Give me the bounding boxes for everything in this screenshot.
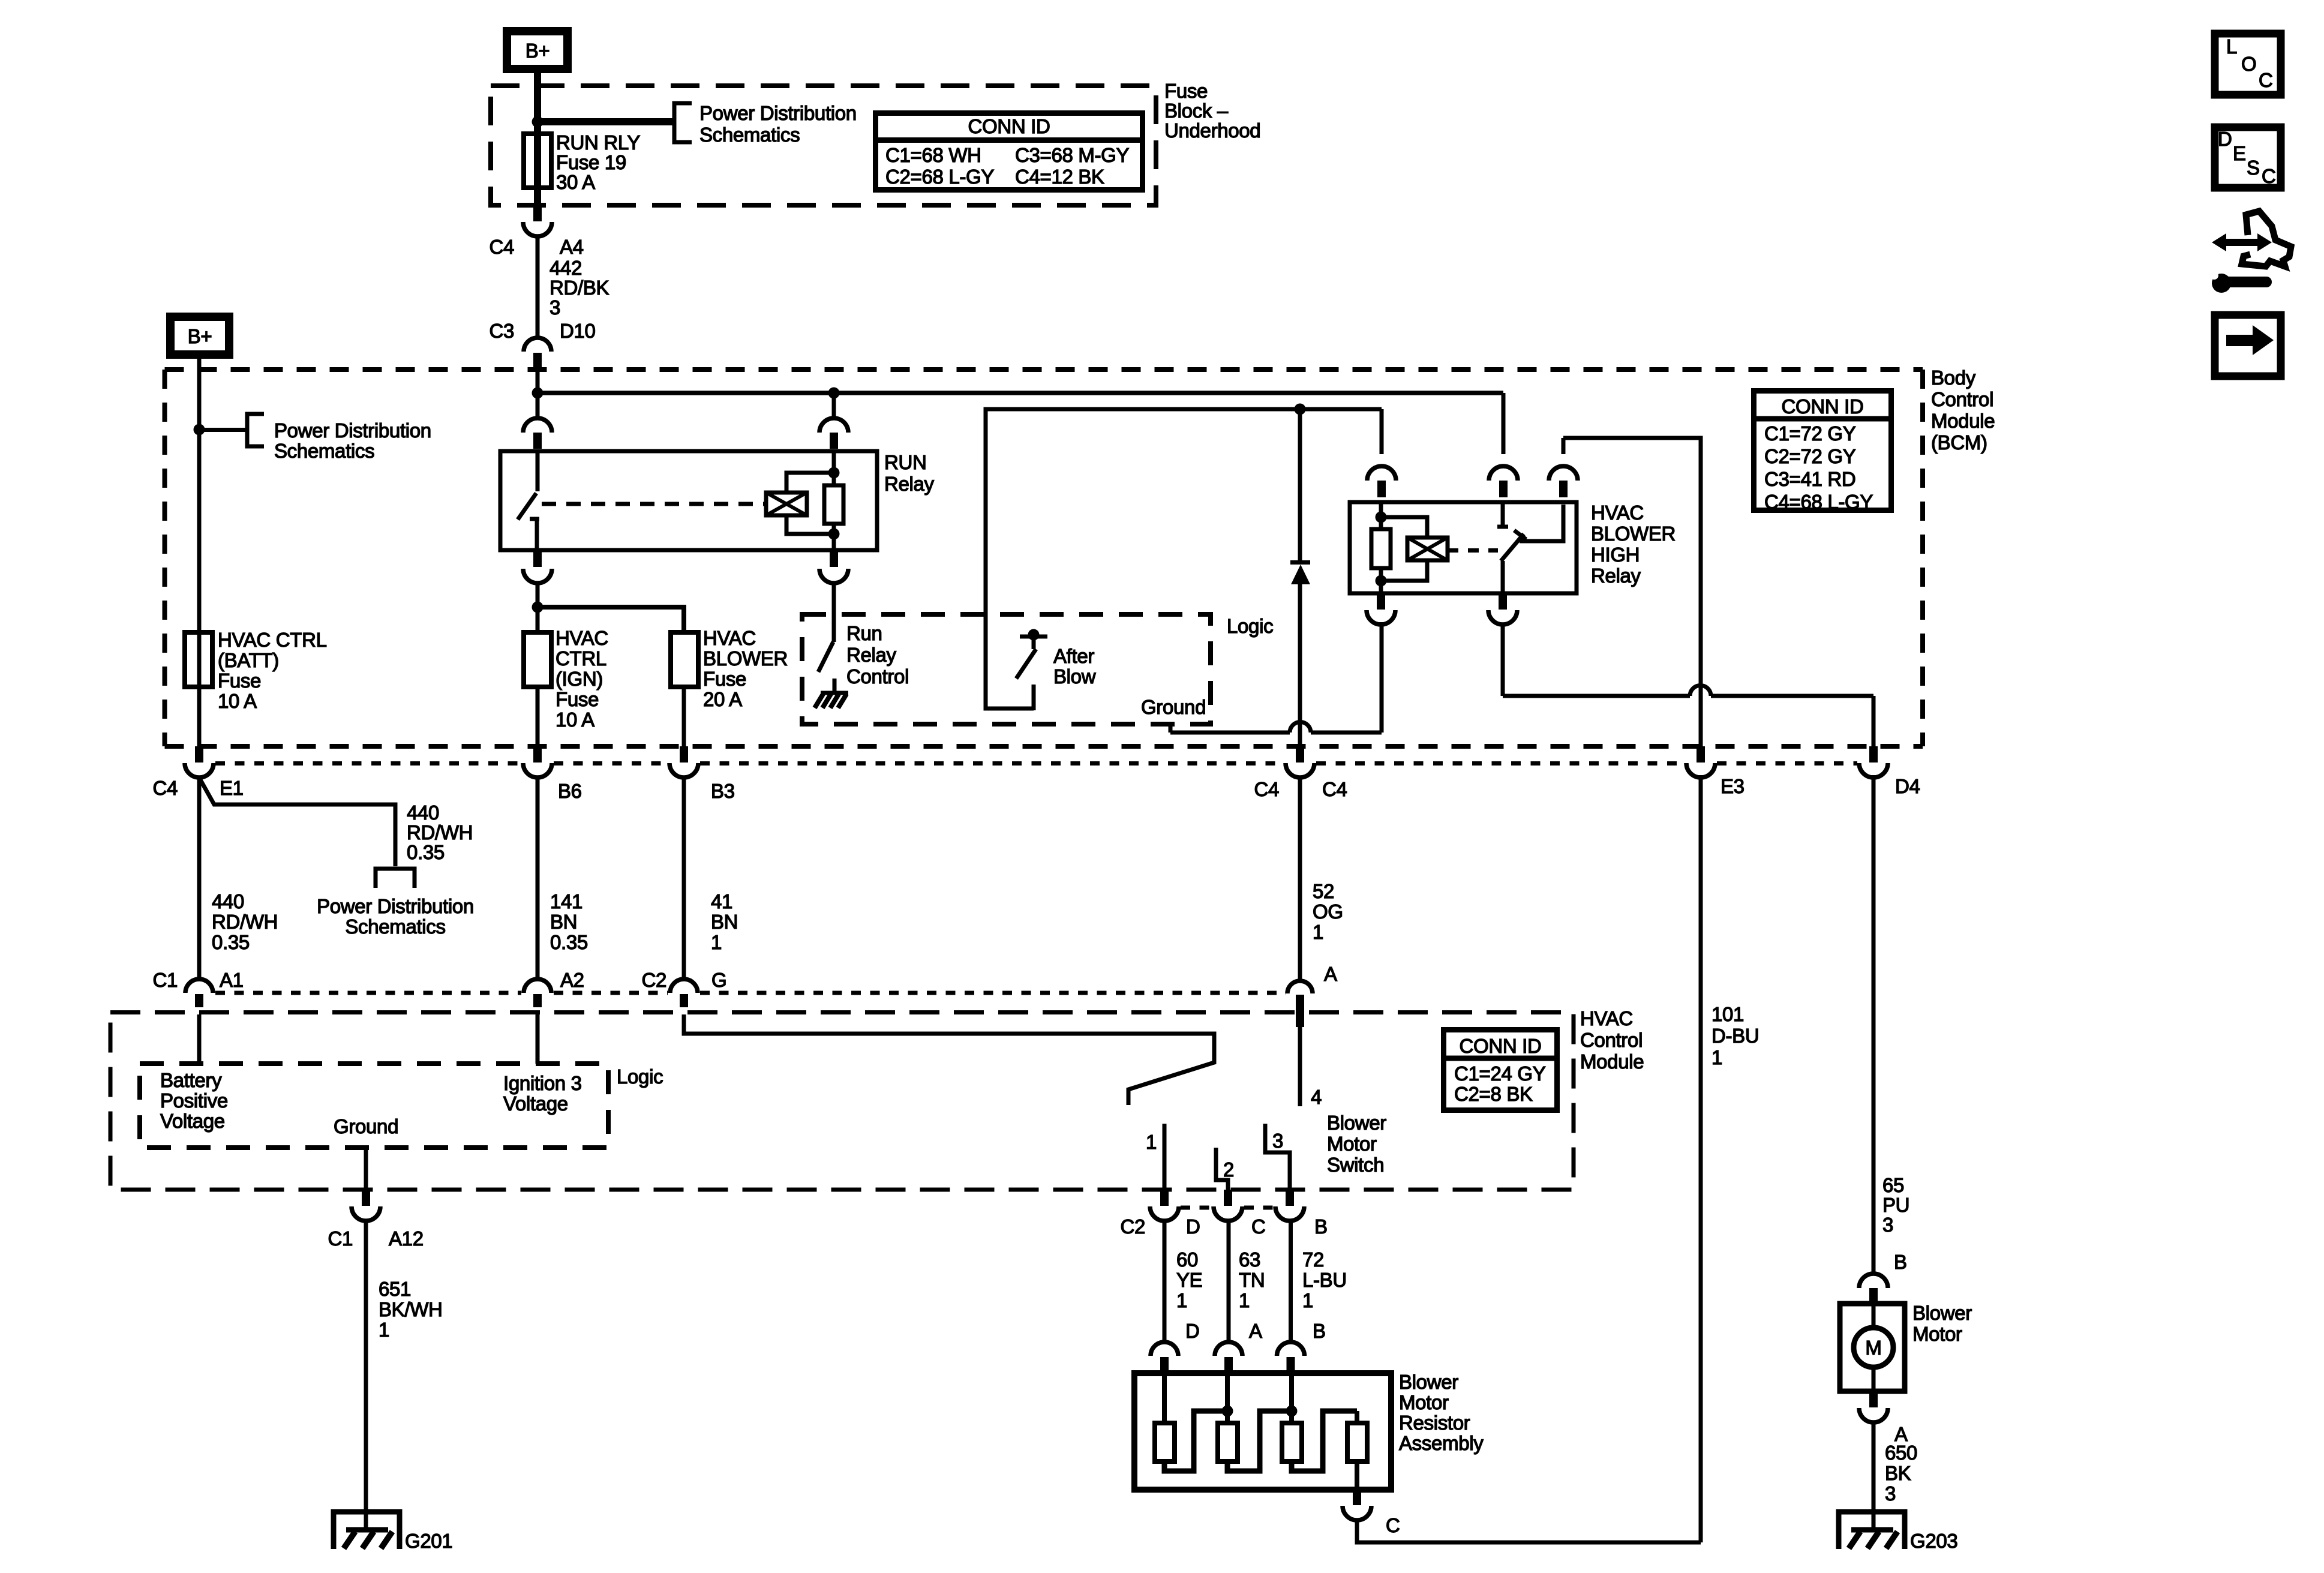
wire - logic ground to coil low side (with hop over diode wire) — [1169, 724, 1173, 733]
svg-text:BK/WH: BK/WH — [379, 1298, 443, 1320]
svg-text:10 A: 10 A — [218, 690, 257, 712]
connector A - blower motor output — [1869, 1391, 1878, 1407]
icon - LOC box — [2215, 34, 2281, 95]
switch - blower high relay contact — [1501, 502, 1505, 528]
svg-text:G: G — [711, 969, 726, 991]
svg-text:RUN RLY: RUN RLY — [556, 131, 640, 154]
svg-text:Module: Module — [1931, 410, 1995, 432]
svg-text:C2: C2 — [1120, 1215, 1145, 1238]
component box - Blower Motor — [1840, 1304, 1905, 1391]
module box - HVAC Control Module dashed outline — [110, 1013, 1574, 1190]
wire - switch signal to blower motor switch pin 4 — [1298, 1027, 1302, 1106]
svg-text:BN: BN — [550, 911, 577, 933]
wire 72 L-BU 1 - B to resistor B — [1289, 1221, 1293, 1342]
icon - DESC box — [2215, 127, 2281, 188]
svg-text:C2=68 L-GY: C2=68 L-GY — [885, 166, 994, 188]
svg-text:4: 4 — [1311, 1086, 1322, 1108]
svg-text:52: 52 — [1313, 880, 1334, 902]
svg-text:HVAC: HVAC — [703, 627, 756, 649]
svg-text:C3=68 M-GY: C3=68 M-GY — [1015, 144, 1130, 166]
component box - Blower Motor Resistor Assembly — [1134, 1373, 1391, 1490]
svg-text:Body: Body — [1931, 367, 1976, 389]
connector - run relay switch pin 30 (top) — [536, 393, 540, 419]
fuse HVAC BLOWER Fuse 20 A — [671, 632, 698, 687]
resistor R-med1 (leg A) — [1225, 1373, 1230, 1423]
connector C1/A12 - HVAC ground output — [362, 1190, 370, 1206]
table CONN ID (HVAC control module) — [1444, 1030, 1557, 1110]
dashed actuator link - run relay — [542, 502, 766, 506]
svg-text:1: 1 — [1313, 921, 1323, 943]
svg-text:141: 141 — [550, 890, 582, 912]
series link 1 - resistor assembly — [1164, 1411, 1227, 1471]
svg-text:0.35: 0.35 — [550, 931, 588, 953]
svg-text:G203: G203 — [1910, 1530, 1957, 1552]
svg-text:41: 41 — [711, 890, 732, 912]
fuse block - underhood dashed outline — [491, 86, 1156, 205]
svg-text:101: 101 — [1712, 1003, 1744, 1025]
connector C4/E1 - BCM battery voltage — [195, 746, 203, 763]
svg-text:A12: A12 — [389, 1227, 424, 1250]
wire 650 BK 3 - motor to G203 — [1872, 1422, 1876, 1531]
wire - resistor common to E3 control wire — [1357, 1520, 1701, 1542]
svg-text:C3: C3 — [489, 320, 514, 342]
svg-text:B: B — [1313, 1320, 1326, 1342]
wire - blower switch wiper feed from G — [684, 1014, 1214, 1105]
wire 440 RD/WH 0.35 - E1 branch to power distribution — [200, 779, 395, 866]
connector - run relay coil pin 85 (bottom) — [830, 550, 838, 567]
svg-text:60: 60 — [1176, 1248, 1198, 1271]
svg-text:Fuse 19: Fuse 19 — [556, 151, 626, 173]
relay coil winding loop - blower high relay — [1381, 517, 1427, 538]
logic box - BCM internal logic dashed outline — [802, 614, 1211, 724]
svg-text:Relay: Relay — [1591, 565, 1641, 587]
svg-text:CONN ID: CONN ID — [1781, 395, 1863, 418]
connector C2/D - blower switch low output — [1160, 1190, 1169, 1206]
connector E3 - blower relay control output — [1697, 746, 1705, 763]
svg-text:C4=68 L-GY: C4=68 L-GY — [1764, 491, 1873, 513]
svg-text:Switch: Switch — [1327, 1154, 1384, 1176]
svg-text:Power Distribution: Power Distribution — [699, 102, 857, 124]
power symbol B+ (BCM battery feed) — [170, 317, 229, 355]
wire - BCM main ignition bus — [536, 370, 540, 393]
connector C4/C4 - BCM blower switch signal — [1296, 746, 1304, 763]
svg-text:Power Distribution: Power Distribution — [317, 895, 474, 917]
svg-text:Motor: Motor — [1912, 1323, 1962, 1345]
svg-text:B: B — [1314, 1215, 1328, 1238]
wire - A1 into logic (battery positive voltage) — [197, 1014, 202, 1064]
svg-text:Control: Control — [846, 665, 909, 688]
wire - A2 into logic (ignition 3 voltage) — [536, 1014, 540, 1064]
svg-text:Blower: Blower — [1327, 1112, 1386, 1134]
svg-text:E3: E3 — [1721, 775, 1744, 797]
wire - logic ground output — [364, 1148, 368, 1190]
wire - bus to blower high relay switch — [1502, 393, 1506, 454]
svg-text:C: C — [2259, 69, 2273, 91]
fuse HVAC CTRL (IGN) Fuse 10 A — [524, 632, 551, 687]
series link 3 - resistor assembly — [1292, 1411, 1357, 1471]
relay RUN Relay - box — [500, 451, 877, 550]
series link 2 - resistor assembly — [1227, 1411, 1292, 1471]
svg-text:BN: BN — [711, 911, 738, 933]
svg-text:Blower: Blower — [1399, 1371, 1458, 1393]
svg-text:BLOWER: BLOWER — [703, 647, 788, 670]
harness line - BCM connector row (dotted) — [215, 761, 521, 766]
module box - Body Control Module (BCM) dashed outline — [165, 367, 1923, 372]
switch contact 2 - blower motor switch — [1216, 1148, 1228, 1190]
svg-text:C2=72 GY: C2=72 GY — [1764, 445, 1856, 467]
svg-text:Underhood: Underhood — [1164, 119, 1260, 142]
svg-text:Control: Control — [1931, 388, 1993, 410]
svg-text:CONN ID: CONN ID — [968, 115, 1050, 137]
svg-text:20 A: 20 A — [703, 688, 742, 710]
svg-text:C3=41 RD: C3=41 RD — [1764, 468, 1855, 490]
svg-text:Control: Control — [1580, 1029, 1643, 1051]
svg-text:L-BU: L-BU — [1302, 1269, 1347, 1291]
wire - after blow to HVAC blower high relay coil feed — [986, 409, 1382, 709]
svg-text:A4: A4 — [560, 236, 584, 258]
svg-text:30 A: 30 A — [556, 171, 595, 193]
svg-text:D: D — [2218, 128, 2232, 150]
resistor R-med2 (leg B) — [1289, 1373, 1294, 1423]
wire - relay output to D4 (hops over E3 wire) — [1501, 625, 1505, 696]
svg-text:B+: B+ — [526, 40, 550, 62]
svg-text:65: 65 — [1882, 1174, 1904, 1196]
logic box - HVAC module logic dashed outline — [140, 1064, 608, 1148]
resistor R-common (output) — [1355, 1411, 1359, 1423]
switch - run relay contact — [536, 451, 540, 491]
svg-text:E: E — [2233, 142, 2246, 164]
svg-text:1: 1 — [1239, 1289, 1250, 1311]
svg-text:Motor: Motor — [1327, 1133, 1377, 1155]
harness line - HVAC control module connector row (dotted) — [215, 991, 521, 995]
svg-text:A: A — [1249, 1320, 1262, 1342]
svg-text:M: M — [1865, 1337, 1881, 1359]
icon - vehicle service glyph with double arrow and wrench — [2242, 211, 2291, 266]
svg-text:B: B — [1894, 1251, 1907, 1273]
svg-text:C1: C1 — [152, 969, 178, 991]
svg-text:72: 72 — [1302, 1248, 1324, 1271]
svg-text:Ground: Ground — [334, 1115, 398, 1137]
svg-text:Schematics: Schematics — [699, 124, 800, 146]
connector B3 - blower fuse output — [680, 746, 688, 763]
wire 65 PU 3 - D4 to blower motor — [1872, 775, 1876, 1274]
svg-text:Ignition 3: Ignition 3 — [503, 1072, 582, 1094]
wire - B+ into BCM down to HVAC CTRL (BATT) fuse — [197, 355, 202, 746]
svg-text:Schematics: Schematics — [274, 440, 374, 462]
wire 440 RD/WH 0.35 - C1/A1 — [197, 777, 202, 980]
ground G203 — [1839, 1512, 1905, 1549]
svg-text:G201: G201 — [405, 1530, 452, 1552]
svg-text:440: 440 — [212, 890, 244, 912]
svg-text:C2=8 BK: C2=8 BK — [1454, 1083, 1533, 1105]
table CONN ID (fuse block underhood) — [876, 113, 1143, 190]
svg-text:CTRL: CTRL — [556, 647, 606, 670]
svg-text:S: S — [2247, 157, 2260, 179]
svg-text:C1=24 GY: C1=24 GY — [1454, 1062, 1546, 1085]
svg-text:63: 63 — [1239, 1248, 1260, 1271]
wire - IGN fuse to B6 — [536, 687, 540, 746]
svg-text:HVAC: HVAC — [556, 627, 608, 649]
svg-text:Relay: Relay — [884, 473, 935, 495]
svg-text:Module: Module — [1580, 1050, 1644, 1073]
svg-text:HVAC CTRL: HVAC CTRL — [218, 629, 327, 651]
svg-text:Relay: Relay — [846, 644, 897, 666]
svg-text:Voltage: Voltage — [503, 1092, 568, 1115]
svg-text:0.35: 0.35 — [407, 841, 445, 863]
svg-text:After: After — [1053, 645, 1094, 667]
svg-text:Block –: Block – — [1164, 100, 1229, 122]
connector - blower high relay coil pin (bottom) — [1377, 593, 1385, 610]
svg-text:D: D — [1186, 1215, 1200, 1238]
svg-text:(BCM): (BCM) — [1931, 431, 1987, 454]
wire - tap to power distribution bracket — [199, 428, 247, 432]
svg-text:CONN ID: CONN ID — [1459, 1035, 1541, 1057]
svg-text:(IGN): (IGN) — [556, 668, 603, 690]
svg-text:RD/WH: RD/WH — [407, 821, 473, 843]
svg-text:PU: PU — [1882, 1194, 1909, 1216]
junction - bus at run relay switch — [532, 388, 544, 399]
svg-text:B6: B6 — [558, 780, 582, 802]
svg-text:HVAC: HVAC — [1580, 1007, 1633, 1029]
svg-text:HIGH: HIGH — [1591, 544, 1640, 566]
svg-text:Run: Run — [846, 622, 882, 644]
wire 101 D-BU 1 - E3 to resistor assembly — [1699, 775, 1703, 1542]
svg-text:C: C — [1386, 1514, 1400, 1536]
fuse HVAC CTRL (BATT) Fuse 10 A — [185, 632, 212, 687]
switch contact 3 - blower motor switch — [1265, 1124, 1290, 1190]
junction - IGN fuse / blower fuse tap — [532, 602, 544, 613]
svg-text:L: L — [2226, 35, 2237, 58]
power symbol B+ (battery feed to underhood fuse block) — [507, 31, 568, 69]
wire 442 RD/BK 3 — [536, 236, 540, 338]
wire 651 BK/WH 1 - ground to G201 — [364, 1221, 368, 1531]
connector - blower high relay NO pin (top) — [1562, 438, 1566, 454]
svg-text:Voltage: Voltage — [160, 1110, 225, 1132]
svg-text:C1: C1 — [328, 1227, 353, 1250]
switch - After Blow — [1020, 635, 1047, 639]
svg-text:3: 3 — [550, 296, 560, 319]
svg-text:Fuse: Fuse — [1164, 80, 1208, 102]
svg-text:Motor: Motor — [1399, 1391, 1449, 1413]
junction - power distribution tap — [194, 424, 205, 436]
svg-text:Assembly: Assembly — [1399, 1432, 1484, 1454]
wire - BLOWER fuse to B3 — [682, 687, 686, 746]
svg-text:C: C — [1251, 1215, 1266, 1238]
svg-text:Battery: Battery — [160, 1069, 222, 1091]
connector C4/A4 - fuse block output — [533, 205, 542, 221]
svg-text:1: 1 — [1176, 1289, 1187, 1311]
svg-text:C: C — [2262, 165, 2276, 187]
svg-text:Positive: Positive — [160, 1089, 228, 1112]
svg-text:YE: YE — [1176, 1269, 1202, 1291]
wire 52 OG 1 - C4 to blower motor switch pin 4 — [1298, 777, 1302, 982]
svg-text:10 A: 10 A — [556, 709, 594, 731]
svg-text:HVAC: HVAC — [1591, 502, 1644, 524]
svg-text:Logic: Logic — [617, 1065, 663, 1088]
svg-text:C4: C4 — [1322, 778, 1347, 800]
svg-text:442: 442 — [550, 257, 582, 279]
svg-text:1: 1 — [711, 931, 722, 953]
svg-text:A2: A2 — [560, 969, 584, 991]
svg-text:C1=72 GY: C1=72 GY — [1764, 422, 1856, 445]
wire - through RUN RLY fuse — [534, 122, 541, 206]
svg-text:B3: B3 — [711, 780, 735, 802]
off-page bracket - Power Distribution Schematics (BCM) — [247, 414, 264, 446]
svg-text:RUN: RUN — [884, 451, 927, 473]
svg-text:C4: C4 — [1254, 778, 1279, 800]
connector - blower high relay switch pin (top) — [1489, 466, 1518, 481]
connector - run relay coil pin 86 (top) — [832, 393, 836, 419]
resistor R-low (leg D) — [1162, 1373, 1167, 1423]
icon - arrow box — [2215, 315, 2281, 376]
svg-text:2: 2 — [1223, 1158, 1234, 1181]
svg-text:0.35: 0.35 — [212, 931, 250, 953]
svg-text:C4: C4 — [152, 777, 178, 799]
svg-text:651: 651 — [379, 1278, 411, 1300]
wire 141 BN 0.35 - B6 to A2 — [536, 777, 540, 980]
svg-text:A: A — [1324, 963, 1337, 985]
connector C - resistor assembly common output — [1353, 1490, 1361, 1505]
svg-text:650: 650 — [1885, 1442, 1917, 1464]
svg-text:Fuse: Fuse — [218, 670, 261, 692]
connector C - blower switch med output — [1224, 1190, 1232, 1206]
connector - run relay switch pin 87 (bottom) — [533, 550, 542, 567]
diode - blower relay coil clamp — [1298, 409, 1302, 560]
svg-text:440: 440 — [407, 801, 439, 824]
wire - B+ feed down into fuse block — [534, 69, 541, 125]
svg-text:D4: D4 — [1895, 775, 1920, 797]
svg-text:D: D — [1185, 1320, 1200, 1342]
svg-text:Blower: Blower — [1912, 1302, 1972, 1324]
svg-text:OG: OG — [1313, 900, 1343, 923]
relay coil winding loop - run relay — [786, 473, 834, 493]
svg-text:A1: A1 — [220, 969, 244, 991]
svg-text:Power Distribution: Power Distribution — [274, 419, 431, 442]
svg-text:C4: C4 — [489, 236, 514, 258]
connector B6 - ignition 3 voltage — [533, 746, 542, 763]
svg-text:Logic: Logic — [1227, 615, 1273, 637]
wire 63 TN 1 - C to resistor A — [1227, 1221, 1231, 1342]
wire - run relay switch to HVAC CTRL (IGN) fuse — [536, 583, 540, 632]
ground - run relay control internal — [833, 679, 837, 692]
svg-text:Fuse: Fuse — [556, 688, 599, 710]
svg-text:C1=68 WH: C1=68 WH — [885, 144, 981, 166]
svg-text:(BATT): (BATT) — [218, 649, 279, 671]
svg-text:C4=12 BK: C4=12 BK — [1015, 166, 1104, 188]
harness line - blower switch output row (dotted) — [1181, 1206, 1212, 1210]
off-page bracket - Power Distribution Schematics (fuse block) — [674, 103, 692, 142]
svg-text:E1: E1 — [220, 777, 244, 799]
svg-text:1: 1 — [379, 1319, 389, 1341]
wire 60 YE 1 - D to resistor D — [1163, 1221, 1167, 1342]
wire - tap to HVAC BLOWER fuse — [538, 607, 684, 632]
connector B - blower switch high output — [1286, 1190, 1294, 1206]
dashed actuator link - blower high relay — [1448, 548, 1498, 553]
wire - NO pin up and over to E3 output — [1563, 438, 1701, 746]
wire - feed to power distribution reference — [538, 118, 674, 125]
svg-text:3: 3 — [1272, 1130, 1283, 1152]
svg-text:3: 3 — [1885, 1482, 1896, 1505]
svg-text:1: 1 — [1712, 1046, 1722, 1068]
off-page bracket - Power Distribution Schematics (branch) — [376, 869, 415, 888]
wire - relay NO contact from E3 feed — [1520, 505, 1563, 541]
junction - relay coil feed / diode node — [1295, 404, 1306, 415]
svg-text:Fuse: Fuse — [703, 668, 746, 690]
svg-text:1: 1 — [1302, 1289, 1313, 1311]
svg-text:D-BU: D-BU — [1712, 1025, 1759, 1047]
relay coil - run relay (resistor element) — [832, 451, 836, 485]
wire - run relay coil to logic — [832, 583, 836, 614]
relay coil - blower high relay (resistor element) — [1379, 502, 1383, 529]
svg-text:O: O — [2241, 53, 2256, 75]
junction - bus at run relay coil — [828, 388, 840, 399]
connector - blower high relay coil pin (top) — [1380, 409, 1384, 454]
relay HVAC BLOWER HIGH Relay - box — [1350, 502, 1577, 593]
svg-text:D10: D10 — [560, 320, 596, 342]
fuse RUN RLY Fuse 19 30 A — [524, 134, 551, 188]
svg-text:1: 1 — [1146, 1131, 1157, 1153]
ground G201 — [334, 1512, 400, 1549]
svg-text:RD/BK: RD/BK — [550, 277, 609, 299]
connector - blower high relay switch pin (bottom) — [1499, 593, 1507, 610]
connector D4 - blower high output — [1869, 746, 1878, 763]
svg-text:BLOWER: BLOWER — [1591, 523, 1676, 545]
svg-text:RD/WH: RD/WH — [212, 911, 278, 933]
svg-text:Blow: Blow — [1053, 665, 1096, 688]
table CONN ID (BCM) — [1754, 391, 1891, 511]
switch - Run Relay Control driver — [832, 614, 836, 642]
svg-text:Ground: Ground — [1141, 696, 1206, 718]
motor symbol M — [1872, 1304, 1876, 1328]
junction - B+ feed node — [532, 116, 544, 128]
wire 41 BN 1 - B3 to G — [682, 777, 686, 980]
svg-text:3: 3 — [1882, 1214, 1893, 1236]
switch contact 1 - blower motor switch — [1163, 1124, 1167, 1190]
svg-text:Resistor: Resistor — [1399, 1412, 1470, 1434]
svg-text:Schematics: Schematics — [345, 915, 445, 938]
svg-text:C2: C2 — [641, 969, 666, 991]
svg-text:B+: B+ — [188, 325, 212, 347]
svg-text:TN: TN — [1239, 1269, 1265, 1291]
svg-text:BK: BK — [1885, 1462, 1911, 1484]
